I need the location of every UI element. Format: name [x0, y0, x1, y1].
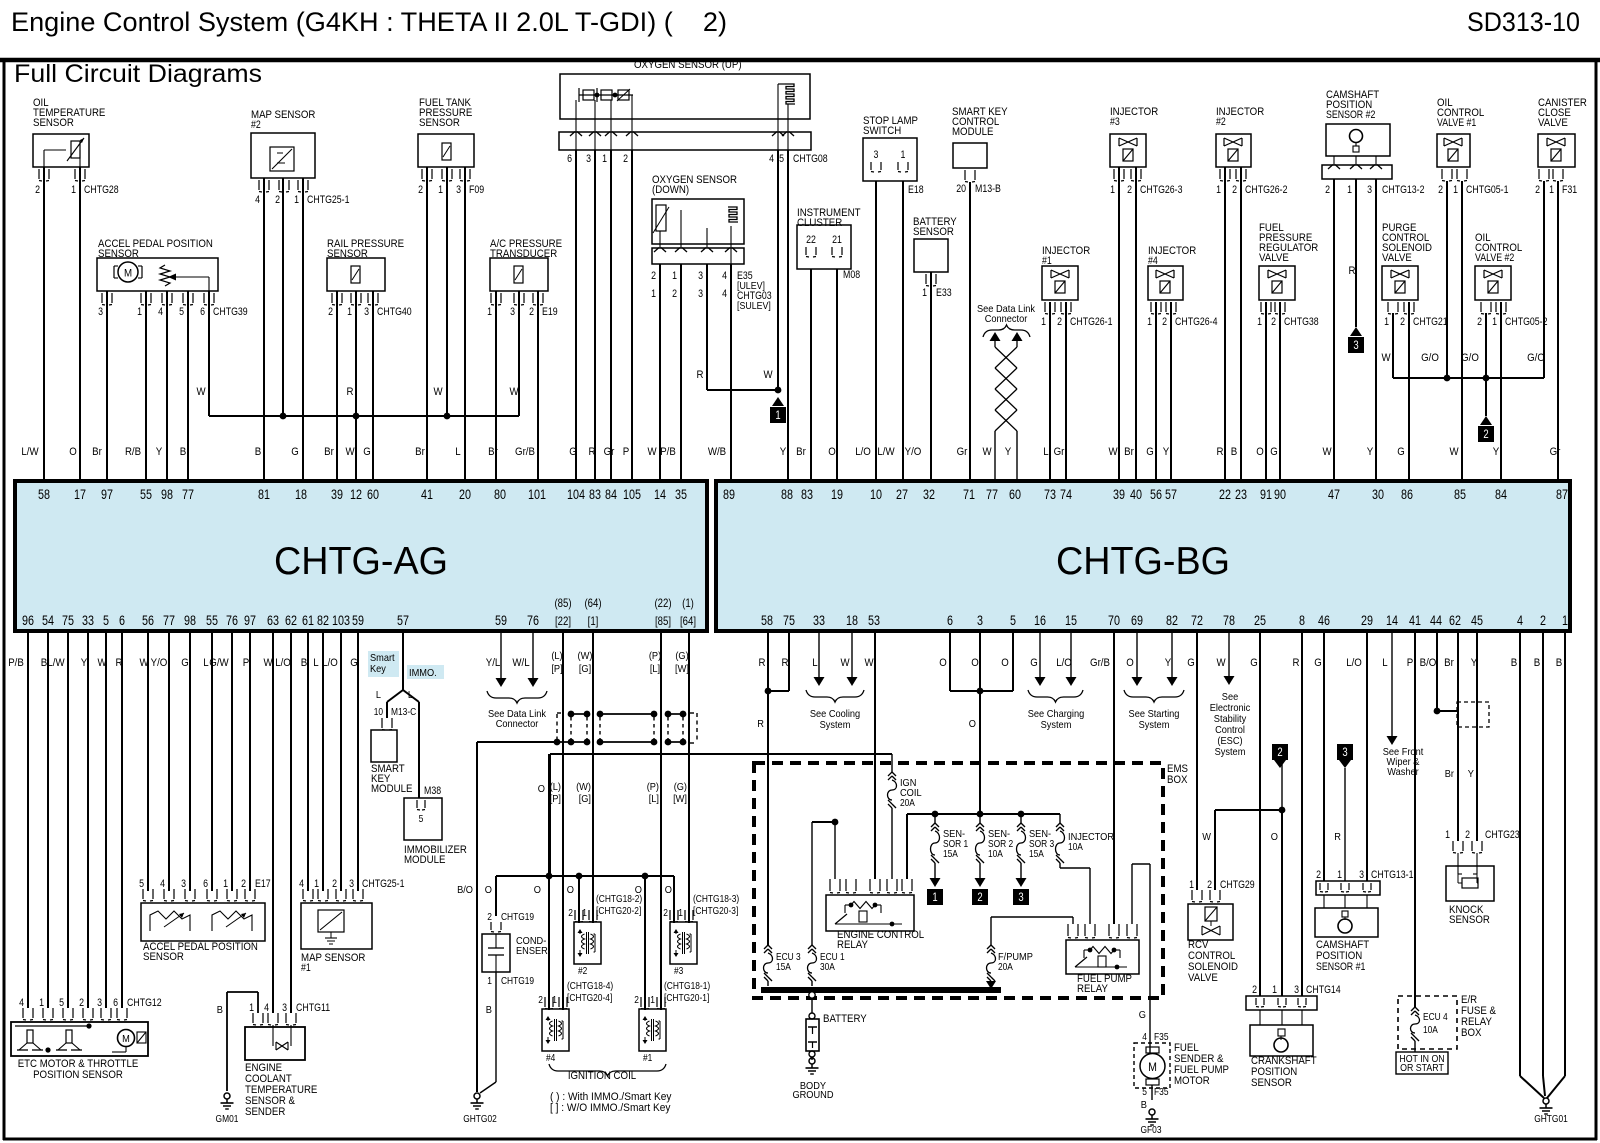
svg-text:5: 5: [1142, 1086, 1147, 1098]
svg-text:3: 3: [364, 306, 369, 318]
svg-text:P: P: [243, 657, 250, 669]
svg-text:39: 39: [1113, 487, 1125, 502]
svg-text:G: G: [1397, 446, 1405, 458]
svg-text:OR START: OR START: [1400, 1063, 1444, 1074]
svg-text:RELAY: RELAY: [1077, 983, 1109, 995]
svg-text:19: 19: [831, 487, 843, 502]
svg-text:6: 6: [113, 997, 118, 1009]
svg-text:W/L: W/L: [512, 657, 529, 669]
svg-text:Gr/B: Gr/B: [1090, 657, 1110, 669]
svg-text:14: 14: [654, 487, 666, 502]
svg-text:[G]: [G]: [579, 663, 591, 675]
svg-text:Gr: Gr: [1550, 446, 1561, 458]
svg-text:(L): (L): [551, 650, 562, 662]
svg-text:O: O: [939, 657, 947, 669]
svg-text:18: 18: [846, 613, 858, 628]
svg-text:GF03: GF03: [1141, 1124, 1162, 1136]
svg-text:BATTERY: BATTERY: [823, 1013, 867, 1025]
svg-text:G: G: [350, 657, 358, 669]
svg-text:CHTG05-1: CHTG05-1: [1466, 184, 1509, 196]
svg-text:VALVE: VALVE: [1259, 252, 1289, 264]
svg-text:MOTOR: MOTOR: [1174, 1075, 1210, 1087]
svg-text:CHTG19: CHTG19: [501, 975, 534, 987]
svg-text:73: 73: [1044, 487, 1056, 502]
svg-text:15: 15: [1065, 613, 1077, 628]
svg-text:#2: #2: [1216, 116, 1226, 128]
svg-text:CHTG26-2: CHTG26-2: [1245, 184, 1288, 196]
svg-text:W: W: [982, 446, 992, 458]
svg-text:O: O: [1001, 657, 1009, 669]
svg-text:17: 17: [74, 487, 86, 502]
svg-text:CHTG23: CHTG23: [1485, 829, 1520, 841]
svg-text:Connector: Connector: [496, 718, 539, 730]
svg-text:#2: #2: [251, 119, 261, 131]
svg-text:G: G: [363, 446, 371, 458]
svg-text:3: 3: [97, 997, 102, 1009]
svg-text:[P]: [P]: [550, 793, 561, 805]
svg-text:G/O: G/O: [1527, 352, 1545, 364]
svg-text:1: 1: [1147, 316, 1152, 328]
svg-text:83: 83: [589, 487, 601, 502]
svg-text:2: 2: [1465, 829, 1470, 841]
svg-text:W: W: [840, 657, 850, 669]
svg-text:53: 53: [868, 613, 880, 628]
svg-text:1: 1: [672, 270, 677, 282]
svg-text:OXYGEN SENSOR (UP): OXYGEN SENSOR (UP): [634, 59, 742, 71]
svg-text:3: 3: [977, 613, 983, 628]
svg-text:3: 3: [510, 306, 515, 318]
svg-text:L/W: L/W: [877, 446, 895, 458]
svg-text:57: 57: [397, 613, 409, 628]
svg-text:W: W: [1449, 446, 1459, 458]
svg-text:1: 1: [294, 194, 299, 206]
svg-text:2: 2: [1277, 745, 1283, 759]
svg-text:VALVE: VALVE: [1538, 117, 1568, 129]
svg-text:W: W: [1381, 352, 1391, 364]
svg-text:6: 6: [200, 306, 205, 318]
svg-text:VALVE: VALVE: [1382, 252, 1412, 264]
svg-text:(CHTG18-4): (CHTG18-4): [567, 980, 613, 992]
svg-text:Br: Br: [415, 446, 425, 458]
svg-text:R: R: [1349, 265, 1356, 277]
svg-text:CHTG25-1: CHTG25-1: [362, 878, 405, 890]
svg-text:CHTG26-3: CHTG26-3: [1140, 184, 1183, 196]
svg-text:20: 20: [459, 487, 471, 502]
svg-text:(DOWN): (DOWN): [652, 184, 689, 196]
svg-text:5: 5: [103, 613, 109, 628]
svg-text:2: 2: [1438, 184, 1443, 196]
svg-text:CHTG38: CHTG38: [1284, 316, 1319, 328]
svg-text:L: L: [812, 657, 817, 669]
svg-text:23: 23: [1235, 487, 1247, 502]
svg-text:P: P: [1407, 657, 1414, 669]
svg-text:B: B: [1556, 657, 1563, 669]
svg-text:TRANSDUCER: TRANSDUCER: [490, 248, 557, 260]
svg-text:[22]: [22]: [555, 614, 571, 628]
svg-text:CHTG19: CHTG19: [501, 911, 534, 923]
svg-text:CHTG-AG: CHTG-AG: [274, 540, 448, 583]
svg-text:10A: 10A: [988, 848, 1003, 860]
svg-text:2: 2: [487, 911, 492, 923]
svg-text:5: 5: [179, 306, 184, 318]
svg-text:Y: Y: [1493, 446, 1500, 458]
svg-text:[CHTG20-4]: [CHTG20-4]: [567, 992, 612, 1004]
svg-text:P/B: P/B: [660, 446, 676, 458]
svg-text:10: 10: [374, 706, 383, 718]
svg-text:2: 2: [568, 907, 573, 919]
svg-text:Br: Br: [796, 446, 806, 458]
svg-text:Y: Y: [156, 446, 163, 458]
svg-text:SENSOR: SENSOR: [327, 248, 368, 260]
svg-text:CHTG40: CHTG40: [377, 306, 412, 318]
svg-text:CHTG29: CHTG29: [1220, 879, 1255, 891]
svg-text:R: R: [1217, 446, 1224, 458]
svg-text:E18: E18: [908, 184, 924, 196]
svg-text:35: 35: [675, 487, 687, 502]
svg-text:L: L: [203, 657, 208, 669]
svg-text:L/W: L/W: [47, 657, 65, 669]
svg-text:GROUND: GROUND: [792, 1089, 833, 1101]
svg-text:#4: #4: [1148, 255, 1158, 267]
svg-text:75: 75: [62, 613, 74, 628]
svg-text:O: O: [534, 884, 541, 896]
svg-text:30: 30: [1372, 487, 1384, 502]
svg-text:10: 10: [870, 487, 882, 502]
svg-text:BOX: BOX: [1167, 774, 1188, 786]
svg-text:5: 5: [139, 878, 144, 890]
svg-text:1: 1: [1347, 184, 1352, 196]
svg-text:(CHTG18-2): (CHTG18-2): [596, 893, 642, 905]
svg-text:39: 39: [331, 487, 343, 502]
svg-text:62: 62: [1449, 613, 1461, 628]
svg-text:O: O: [665, 884, 672, 896]
svg-text:(W): (W): [576, 781, 591, 793]
svg-text:Gr: Gr: [604, 446, 615, 458]
svg-text:GM01: GM01: [216, 1113, 239, 1125]
svg-text:1: 1: [249, 1002, 254, 1014]
svg-text:SENSOR: SENSOR: [33, 117, 74, 129]
svg-text:MODULE: MODULE: [371, 783, 412, 795]
svg-text:2: 2: [328, 306, 333, 318]
svg-text:46: 46: [1318, 613, 1330, 628]
svg-text:W/B: W/B: [708, 446, 726, 458]
svg-text:4: 4: [769, 153, 774, 165]
svg-text:5: 5: [419, 813, 424, 825]
svg-text:[ ] : W/O IMMO./Smart Key: [ ] : W/O IMMO./Smart Key: [550, 1102, 671, 1114]
svg-text:R: R: [697, 369, 704, 381]
svg-text:40: 40: [1130, 487, 1142, 502]
svg-text:5: 5: [59, 997, 64, 1009]
svg-text:W: W: [345, 446, 355, 458]
svg-text:O: O: [538, 783, 545, 795]
svg-text:O: O: [971, 657, 979, 669]
svg-text:61: 61: [302, 613, 314, 628]
svg-text:B/O: B/O: [457, 884, 473, 896]
svg-text:SD313-10: SD313-10: [1467, 7, 1580, 37]
svg-text:B: B: [255, 446, 262, 458]
svg-text:2: 2: [1400, 316, 1405, 328]
svg-text:#1: #1: [301, 962, 311, 974]
svg-text:2: 2: [672, 288, 677, 300]
svg-text:G/O: G/O: [1421, 352, 1439, 364]
svg-text:W: W: [1108, 446, 1118, 458]
svg-text:18: 18: [295, 487, 307, 502]
svg-text:SENSOR: SENSOR: [1449, 914, 1490, 926]
svg-text:58: 58: [38, 487, 50, 502]
svg-text:[85]: [85]: [655, 614, 671, 628]
svg-text:1: 1: [487, 306, 492, 318]
svg-text:F09: F09: [469, 184, 484, 196]
svg-text:97: 97: [244, 613, 256, 628]
svg-text:G/O: G/O: [1461, 352, 1479, 364]
svg-text:B: B: [301, 657, 308, 669]
svg-text:103: 103: [332, 613, 350, 628]
svg-text:71: 71: [963, 487, 975, 502]
svg-text:2: 2: [538, 994, 543, 1006]
svg-text:1: 1: [582, 907, 587, 919]
svg-text:20A: 20A: [900, 797, 915, 809]
svg-text:4: 4: [1517, 613, 1523, 628]
svg-text:1: 1: [71, 184, 76, 196]
svg-text:6: 6: [947, 613, 953, 628]
svg-text:41: 41: [1409, 613, 1421, 628]
svg-text:2: 2: [1325, 184, 1330, 196]
svg-text:33: 33: [82, 613, 94, 628]
svg-text:77: 77: [986, 487, 998, 502]
svg-text:O: O: [1256, 446, 1264, 458]
svg-text:VALVE: VALVE: [1188, 972, 1218, 984]
svg-text:82: 82: [1166, 613, 1178, 628]
svg-text:75: 75: [783, 613, 795, 628]
svg-text:56: 56: [142, 613, 154, 628]
svg-text:3: 3: [1342, 745, 1348, 759]
svg-text:G: G: [181, 657, 189, 669]
svg-text:1: 1: [651, 288, 656, 300]
svg-text:16: 16: [1034, 613, 1046, 628]
svg-text:O: O: [1126, 657, 1134, 669]
svg-text:33: 33: [813, 613, 825, 628]
svg-text:29: 29: [1361, 613, 1373, 628]
svg-text:[L]: [L]: [650, 663, 660, 675]
svg-text:O: O: [1271, 831, 1278, 843]
svg-text:R: R: [1334, 831, 1341, 843]
svg-text:10A: 10A: [1068, 841, 1083, 853]
svg-text:System: System: [1215, 746, 1246, 758]
svg-text:1: 1: [1257, 316, 1262, 328]
svg-text:2: 2: [1271, 316, 1276, 328]
svg-text:41: 41: [421, 487, 433, 502]
svg-text:96: 96: [22, 613, 34, 628]
svg-text:55: 55: [206, 613, 218, 628]
svg-text:BOX: BOX: [1461, 1027, 1482, 1039]
svg-text:(P): (P): [649, 650, 661, 662]
svg-text:1: 1: [1453, 184, 1458, 196]
svg-text:M: M: [122, 1033, 130, 1045]
svg-text:1: 1: [39, 997, 44, 1009]
svg-text:59: 59: [352, 613, 364, 628]
svg-text:G: G: [1187, 657, 1195, 669]
svg-text:SENSOR: SENSOR: [419, 117, 460, 129]
svg-text:ENSER: ENSER: [516, 945, 548, 957]
svg-text:1: 1: [1216, 184, 1221, 196]
svg-text:CHTG21: CHTG21: [1413, 316, 1448, 328]
svg-text:(22): (22): [654, 596, 671, 610]
svg-text:88: 88: [781, 487, 793, 502]
svg-text:6: 6: [203, 878, 208, 890]
svg-text:G: G: [291, 446, 299, 458]
svg-text:CHTG28: CHTG28: [84, 184, 119, 196]
svg-text:84: 84: [605, 487, 617, 502]
svg-text:O: O: [969, 718, 976, 730]
svg-text:3: 3: [1367, 184, 1372, 196]
svg-text:(G): (G): [674, 781, 687, 793]
svg-text:B: B: [180, 446, 187, 458]
svg-text:1: 1: [347, 306, 352, 318]
svg-text:1: 1: [438, 184, 443, 196]
svg-text:L/O: L/O: [322, 657, 338, 669]
svg-text:2: 2: [1535, 184, 1540, 196]
svg-text:[SULEV]: [SULEV]: [737, 301, 771, 312]
svg-text:CHTG-BG: CHTG-BG: [1056, 540, 1230, 583]
svg-text:(64): (64): [584, 596, 601, 610]
svg-text:(CHTG18-3): (CHTG18-3): [693, 893, 739, 905]
svg-text:90: 90: [1274, 487, 1286, 502]
svg-text:L: L: [1043, 446, 1048, 458]
svg-text:12: 12: [350, 487, 362, 502]
svg-text:2: 2: [1316, 869, 1321, 881]
svg-text:1: 1: [314, 878, 319, 890]
svg-text:1: 1: [1492, 316, 1497, 328]
svg-text:1: 1: [1562, 613, 1568, 628]
svg-text:44: 44: [1430, 613, 1442, 628]
svg-text:MODULE: MODULE: [952, 126, 993, 138]
svg-text:[W]: [W]: [675, 663, 689, 675]
svg-text:CHTG25-1: CHTG25-1: [307, 194, 350, 206]
svg-text:4: 4: [722, 270, 727, 282]
svg-text:L/O: L/O: [1056, 657, 1072, 669]
svg-text:2: 2: [651, 270, 656, 282]
svg-text:O: O: [69, 446, 77, 458]
svg-text:P/B: P/B: [8, 657, 24, 669]
svg-text:VALVE #2: VALVE #2: [1475, 252, 1514, 264]
svg-text:Br: Br: [1445, 768, 1455, 780]
svg-text:W: W: [509, 386, 519, 398]
svg-text:56: 56: [1150, 487, 1162, 502]
svg-text:80: 80: [494, 487, 506, 502]
svg-text:3: 3: [98, 306, 103, 318]
svg-text:L: L: [1382, 657, 1387, 669]
svg-text:L: L: [455, 446, 460, 458]
svg-text:4: 4: [19, 997, 24, 1009]
svg-text:M: M: [124, 268, 132, 280]
svg-text:SENSOR #1: SENSOR #1: [1316, 961, 1365, 973]
svg-text:4: 4: [722, 288, 727, 300]
svg-text:45: 45: [1471, 613, 1483, 628]
svg-text:4: 4: [160, 878, 165, 890]
svg-text:85: 85: [1454, 487, 1466, 502]
svg-text:Br: Br: [324, 446, 334, 458]
svg-text:RELAY: RELAY: [837, 939, 869, 951]
svg-text:(85): (85): [554, 596, 571, 610]
svg-text:2: 2: [1540, 613, 1546, 628]
svg-text:25: 25: [1254, 613, 1266, 628]
svg-text:G: G: [1030, 657, 1038, 669]
svg-text:#1: #1: [1042, 255, 1052, 267]
svg-text:GHTG02: GHTG02: [463, 1113, 497, 1125]
svg-text:W: W: [763, 369, 773, 381]
svg-text:3: 3: [181, 878, 186, 890]
svg-text:2: 2: [1207, 879, 1212, 891]
svg-text:2: 2: [79, 997, 84, 1009]
svg-text:M38: M38: [424, 785, 441, 797]
svg-text:59: 59: [495, 613, 507, 628]
svg-text:W: W: [864, 657, 874, 669]
svg-text:2: 2: [241, 878, 246, 890]
svg-text:B: B: [1141, 1099, 1147, 1111]
svg-text:(W): (W): [578, 650, 593, 662]
svg-text:2: 2: [332, 878, 337, 890]
svg-text:[P]: [P]: [551, 663, 562, 675]
svg-text:55: 55: [140, 487, 152, 502]
svg-text:15A: 15A: [943, 848, 958, 860]
svg-text:B: B: [486, 1004, 492, 1016]
svg-text:GHTG01: GHTG01: [1534, 1113, 1568, 1125]
svg-text:Engine Control System (G4KH :: Engine Control System (G4KH : THETA II 2…: [11, 7, 727, 37]
svg-text:8: 8: [1299, 613, 1305, 628]
svg-text:CHTG13-2: CHTG13-2: [1382, 184, 1425, 196]
svg-text:97: 97: [101, 487, 113, 502]
svg-text:10A: 10A: [1423, 1024, 1438, 1036]
svg-text:1: 1: [1384, 316, 1389, 328]
svg-text:1: 1: [775, 408, 781, 422]
svg-text:R: R: [1293, 657, 1300, 669]
svg-text:L: L: [376, 689, 381, 701]
svg-text:R: R: [759, 657, 766, 669]
svg-text:[G]: [G]: [579, 793, 591, 805]
svg-text:[64]: [64]: [680, 614, 696, 628]
svg-text:72: 72: [1191, 613, 1203, 628]
svg-text:P: P: [623, 446, 630, 458]
svg-text:Full Circuit Diagrams: Full Circuit Diagrams: [14, 60, 262, 88]
svg-text:SWITCH: SWITCH: [863, 125, 901, 137]
svg-text:#4: #4: [546, 1052, 555, 1064]
svg-text:B: B: [1534, 657, 1541, 669]
svg-text:60: 60: [1009, 487, 1021, 502]
svg-text:MODULE: MODULE: [404, 854, 445, 866]
svg-text:CHTG12: CHTG12: [127, 997, 162, 1009]
svg-text:[CHTG20-1]: [CHTG20-1]: [664, 992, 709, 1004]
svg-text:2: 2: [1057, 316, 1062, 328]
svg-text:84: 84: [1495, 487, 1507, 502]
svg-text:System: System: [1139, 719, 1170, 731]
svg-text:2: 2: [529, 306, 534, 318]
svg-text:CHTG13-1: CHTG13-1: [1371, 869, 1414, 881]
svg-text:1: 1: [1272, 984, 1277, 996]
svg-text:58: 58: [761, 613, 773, 628]
svg-text:14: 14: [1386, 613, 1398, 628]
svg-text:105: 105: [623, 487, 641, 502]
svg-text:3: 3: [456, 184, 461, 196]
svg-text:15A: 15A: [1029, 848, 1044, 860]
svg-text:(1): (1): [682, 596, 694, 610]
svg-text:B: B: [1231, 446, 1238, 458]
svg-text:CHTG39: CHTG39: [213, 306, 248, 318]
svg-text:R: R: [782, 657, 789, 669]
svg-text:60: 60: [367, 487, 379, 502]
svg-text:System: System: [1041, 719, 1072, 731]
svg-text:#2: #2: [578, 965, 587, 977]
svg-text:R: R: [757, 718, 764, 730]
